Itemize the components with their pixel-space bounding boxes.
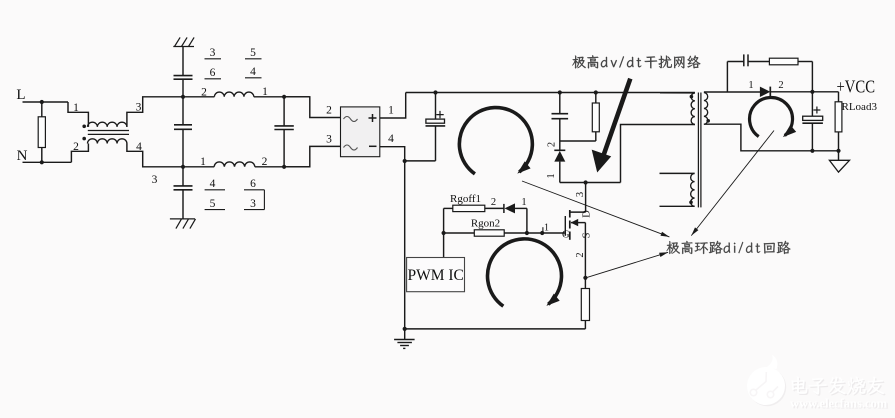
node gate pin junction	[540, 231, 544, 235]
svg-text:1: 1	[521, 197, 526, 208]
svg-text:5: 5	[210, 198, 216, 210]
wire main positive rail	[406, 92, 695, 94]
node output diode junction	[810, 90, 814, 94]
svg-text:3: 3	[250, 198, 256, 210]
resistor Rgoff1	[444, 207, 453, 209]
wire snubber riser	[726, 62, 728, 92]
node primary phase dot	[690, 95, 694, 99]
capacitor C-clamp	[559, 93, 561, 114]
bridge rectifier BR1 body	[341, 107, 380, 157]
label annotation di/dt loop	[667, 241, 680, 254]
node rail clamp cap junction	[558, 90, 562, 94]
transistor Q1 gate bar	[564, 216, 566, 236]
transistor Q1 drain lead	[585, 183, 587, 213]
arrow thin from secondary loop	[691, 131, 774, 236]
node rail bulk cap junction	[433, 90, 437, 94]
resistor R-clamp	[595, 93, 597, 104]
node secondary phase dot	[706, 119, 710, 123]
svg-text:2: 2	[547, 142, 558, 147]
label annotation dv/dt network	[572, 56, 585, 69]
transformer T2 core	[697, 93, 699, 208]
inductor L2 bottom	[214, 162, 255, 167]
wire gate left column	[443, 208, 445, 257]
resistor R1 input	[38, 117, 45, 148]
wire filter bottom rail right	[255, 166, 310, 168]
node rload bottom junction	[836, 149, 840, 153]
wire choke pin3 to filter rail	[127, 97, 183, 127]
node T1 bottom phase dot	[82, 137, 86, 141]
svg-text:RLoad3: RLoad3	[842, 101, 878, 113]
ground earth top	[173, 46, 194, 48]
wire N to choke pin2	[71, 144, 88, 163]
node gate right junction	[525, 231, 529, 235]
inductor T1 bottom winding	[88, 139, 127, 144]
svg-text:2: 2	[491, 197, 496, 208]
capacitor C-bulk electrolytic	[435, 93, 437, 120]
ground primary	[404, 329, 406, 340]
wire to bridge pin2	[284, 97, 340, 118]
bridge minus sign	[369, 145, 377, 147]
inductor L1 top	[214, 92, 253, 97]
bridge ac symbol bottom	[344, 145, 358, 150]
node bridge negative junction	[403, 159, 407, 163]
inductor T1 core	[88, 130, 129, 132]
op-amp U1 PWM IC box	[407, 258, 465, 292]
resistor R-snub2	[748, 61, 769, 63]
svg-text:1: 1	[200, 156, 206, 168]
resistor Rgon2	[444, 232, 475, 234]
wire secondary bottom	[704, 124, 839, 151]
node source junction	[583, 276, 587, 280]
svg-text:2: 2	[73, 141, 79, 153]
wire filter bottom rail left	[183, 166, 214, 168]
node N junction	[40, 160, 44, 164]
wire primary ground rail	[405, 328, 586, 330]
resistor RLoad3	[838, 92, 840, 102]
watermark text	[790, 377, 889, 412]
svg-text:PWM IC: PWM IC	[407, 267, 463, 284]
node output cap bottom junction	[810, 149, 814, 153]
svg-text:2: 2	[201, 86, 207, 98]
ground earth bottom	[170, 218, 195, 220]
wire aux top stub	[660, 172, 695, 174]
svg-text:4: 4	[388, 133, 394, 145]
node L junction	[40, 100, 44, 104]
svg-text:4: 4	[210, 178, 216, 190]
diode D-gate	[503, 204, 505, 213]
svg-text:3: 3	[575, 192, 586, 197]
bulk cap plus label	[436, 111, 443, 118]
svg-text:1: 1	[544, 223, 549, 234]
wire primary bottom return	[621, 125, 695, 183]
svg-text:www.elecfans.com: www.elecfans.com	[790, 397, 888, 411]
wire snubber right drop	[811, 62, 813, 92]
wire filter top rail right	[254, 96, 310, 98]
wire choke pin4 to filter rail	[127, 144, 183, 167]
svg-text:Rgoff1: Rgoff1	[450, 193, 481, 205]
capacitor C-snub2	[727, 61, 743, 63]
svg-text:3: 3	[152, 174, 158, 186]
svg-text:6: 6	[210, 67, 216, 79]
svg-text:4: 4	[136, 141, 142, 153]
node bottom rail left junction	[181, 165, 185, 169]
svg-text:1: 1	[748, 80, 753, 91]
node T1 top phase dot	[82, 125, 86, 129]
wire vcc	[812, 91, 838, 93]
svg-text:6: 6	[250, 178, 256, 190]
wire secondary top	[704, 91, 760, 93]
wire aux bottom stub	[660, 205, 695, 207]
node rail right junction bottom	[282, 165, 286, 169]
svg-text:3: 3	[136, 102, 142, 114]
capacitor CY2 bottom	[182, 167, 184, 186]
arrow thin from loop1	[522, 181, 669, 237]
loop arrow primary 2	[487, 239, 561, 306]
node rail clamp resistor junction	[594, 90, 598, 94]
loop arrow secondary	[750, 97, 793, 136]
bridge ac symbol top	[344, 117, 358, 122]
wire L to choke pin1	[68, 102, 88, 127]
svg-text:1: 1	[388, 105, 394, 117]
node gate left junction	[442, 231, 446, 235]
transformer T2 primary winding	[691, 93, 695, 124]
transistor Q1 source arrow	[571, 222, 585, 224]
transformer T2 aux winding	[691, 173, 695, 206]
node aux phase dot	[689, 201, 693, 205]
wire clamp bottom link	[560, 140, 596, 142]
node ground junction	[403, 327, 407, 331]
svg-text:1: 1	[546, 173, 557, 178]
wire filter top rail left	[183, 96, 214, 98]
transformer T2 secondary winding	[704, 93, 708, 125]
capacitor CY1 top	[182, 47, 184, 76]
wire L input	[23, 101, 69, 103]
wire to bridge pin3	[284, 146, 340, 166]
capacitor CX2	[283, 97, 285, 126]
svg-text:L: L	[16, 87, 25, 103]
wire primary left vertical	[404, 161, 406, 329]
svg-text:2: 2	[575, 252, 586, 257]
svg-text:2: 2	[326, 105, 332, 117]
svg-text:G: G	[562, 230, 570, 241]
watermark logo	[748, 368, 786, 406]
capacitor C-out electrolytic	[811, 92, 813, 116]
node drain junction	[584, 180, 588, 184]
wire N input	[23, 161, 72, 163]
wire gate diode down	[526, 208, 528, 233]
svg-text:+VCC: +VCC	[837, 76, 876, 96]
diode D-clamp	[559, 141, 561, 150]
svg-text:2: 2	[778, 80, 783, 91]
transistor Q1 channel	[569, 210, 571, 218]
ground secondary	[838, 151, 840, 161]
arrow thin from source node	[585, 252, 668, 278]
svg-text:D: D	[581, 210, 592, 218]
svg-text:3: 3	[210, 47, 216, 59]
diode D-out	[760, 87, 770, 97]
output cap plus label	[813, 107, 820, 114]
svg-text:4: 4	[250, 66, 256, 78]
svg-text:1: 1	[73, 102, 79, 114]
wire bridge pin1 to rail	[380, 93, 406, 119]
transistor Q1 source lead	[584, 223, 586, 278]
inductor T1 top winding	[88, 122, 127, 127]
wire bridge pin4 down	[380, 147, 405, 161]
loop arrow primary 1	[459, 108, 532, 174]
svg-text:S: S	[581, 232, 592, 238]
wire clamp to drain node	[560, 182, 621, 184]
resistor R-sense	[584, 278, 586, 289]
node filter rail top-left junction	[181, 95, 185, 99]
svg-text:Rgon2: Rgon2	[471, 218, 500, 230]
arrow thick dv/dt	[602, 79, 631, 161]
bridge plus sign	[369, 114, 377, 122]
capacitor CX1	[182, 97, 184, 125]
svg-text:5: 5	[250, 47, 256, 59]
node rail right junction top	[282, 95, 286, 99]
svg-text:3: 3	[326, 134, 332, 146]
